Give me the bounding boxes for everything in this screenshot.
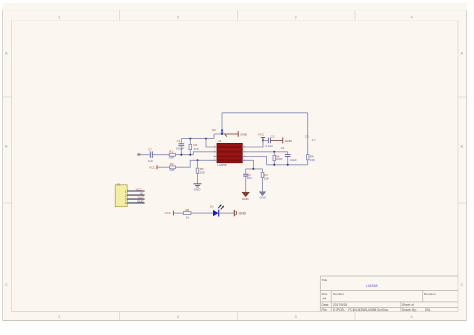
svg-text:C7: C7 xyxy=(148,148,152,152)
junction dot rail pin1 xyxy=(205,138,207,140)
port IN xyxy=(137,153,140,156)
resistor R3 xyxy=(189,139,191,145)
svg-text:A: A xyxy=(461,51,464,56)
svg-text:GND: GND xyxy=(194,188,202,192)
wire input xyxy=(141,154,150,156)
ground GND power port near D2 xyxy=(224,133,238,135)
svg-text:GND: GND xyxy=(285,139,293,143)
capacitor C4 xyxy=(287,152,289,154)
op-amp U1 LM358 body xyxy=(217,143,242,162)
svg-text:GND: GND xyxy=(137,199,143,203)
svg-text:10K: 10K xyxy=(169,156,174,160)
junction dot rail R3 xyxy=(189,138,191,140)
wire VCC to R8 xyxy=(173,212,183,214)
svg-text:47K: 47K xyxy=(193,147,198,151)
svg-text:C4: C4 xyxy=(281,146,285,150)
svg-text:2: 2 xyxy=(177,14,179,19)
resistor R8 xyxy=(184,212,191,215)
wire LED to GND xyxy=(219,212,234,214)
svg-text:Date:: Date: xyxy=(322,303,330,307)
resistor R9 xyxy=(307,155,310,160)
diode D2 xyxy=(221,130,224,133)
junction dot xyxy=(221,133,223,135)
svg-text:GND: GND xyxy=(260,196,266,200)
svg-text:10K: 10K xyxy=(264,177,269,181)
svg-text:LM358: LM358 xyxy=(366,284,378,288)
svg-text:C5: C5 xyxy=(271,134,275,138)
svg-text:E:\PCB\: E:\PCB\ xyxy=(333,308,344,312)
svg-text:VCC: VCC xyxy=(165,211,172,215)
capacitor C2 xyxy=(245,169,247,174)
pin 6 right wire xyxy=(242,151,287,153)
svg-text:104: 104 xyxy=(247,176,252,180)
wire feedback top xyxy=(222,112,308,114)
svg-text:3: 3 xyxy=(295,14,297,19)
ground GND below C2 xyxy=(242,192,250,197)
svg-text:GND: GND xyxy=(240,132,248,136)
svg-text:A4: A4 xyxy=(323,297,327,301)
ground GND power port LED xyxy=(233,210,235,216)
svg-text:U1: U1 xyxy=(218,139,222,143)
wire input 3 xyxy=(175,152,217,155)
wire feedback left vertical xyxy=(221,113,223,134)
svg-text:C: C xyxy=(5,282,8,287)
wire input 2 xyxy=(152,154,169,156)
svg-text:1: 1 xyxy=(58,314,60,319)
svg-text:SSL: SSL xyxy=(425,308,431,312)
capacitor C7 xyxy=(149,151,151,158)
svg-text:C: C xyxy=(461,282,464,287)
pin 1 left xyxy=(206,139,217,147)
resistor R6 xyxy=(273,152,275,156)
svg-text:R1: R1 xyxy=(169,149,173,153)
junction dot C1 xyxy=(180,154,182,156)
wire VCC to R2 xyxy=(157,166,170,168)
svg-text:GND: GND xyxy=(242,197,250,201)
wire node junction horizontal xyxy=(214,133,224,135)
svg-text:D1: D1 xyxy=(210,204,214,208)
pin numbers xyxy=(214,145,246,160)
wire R9 to bottom xyxy=(307,160,309,165)
svg-text:R2: R2 xyxy=(170,162,174,166)
resistor R5 xyxy=(197,160,199,168)
ground GND below R5 xyxy=(194,183,202,185)
junction dot below IC xyxy=(252,168,254,170)
svg-text:1: 1 xyxy=(58,14,60,19)
wire rail xyxy=(181,138,214,140)
svg-text:Number: Number xyxy=(333,292,344,296)
pin wire P1-3 xyxy=(127,198,144,200)
svg-text:R8: R8 xyxy=(185,208,189,212)
capacitor C1 xyxy=(180,139,182,144)
svg-text:100K: 100K xyxy=(276,157,283,161)
svg-text:2: 2 xyxy=(177,314,179,319)
ground GND power port right of C5 xyxy=(270,139,282,141)
svg-text:10K: 10K xyxy=(169,168,174,172)
svg-text:A: A xyxy=(5,51,8,56)
svg-text:P1: P1 xyxy=(117,183,121,187)
junction dot C4 bottom xyxy=(287,164,289,166)
svg-text:GND: GND xyxy=(239,211,247,215)
svg-text:LM358: LM358 xyxy=(217,163,227,167)
title block xyxy=(320,275,458,277)
svg-text:1uF: 1uF xyxy=(148,159,153,163)
capacitor C5 xyxy=(263,139,268,141)
junction dot R3 xyxy=(189,154,191,156)
svg-text:B: B xyxy=(5,144,8,149)
svg-text:100pF: 100pF xyxy=(176,147,185,151)
LED D1 xyxy=(213,210,219,216)
junction dot R6 xyxy=(273,151,275,153)
svg-text:C1: C1 xyxy=(177,139,181,143)
resistor R4 xyxy=(262,169,264,173)
svg-text:D2: D2 xyxy=(212,128,216,132)
svg-text:2017/9/26: 2017/9/26 xyxy=(333,303,347,307)
svg-text:10K: 10K xyxy=(200,171,205,175)
svg-text:VCC: VCC xyxy=(149,166,156,170)
pin 8 right wire xyxy=(242,160,253,169)
wire riser rail xyxy=(213,134,215,139)
svg-text:Revision: Revision xyxy=(424,292,436,296)
wire feedback right vertical xyxy=(307,113,309,155)
svg-text:C3: C3 xyxy=(305,135,309,139)
svg-text:4.7: 4.7 xyxy=(312,138,317,142)
resistor R1 xyxy=(169,153,175,156)
svg-text:File:: File: xyxy=(322,308,328,312)
junction dot VCC xyxy=(262,139,264,141)
pin 7 right wire xyxy=(242,157,266,165)
junction dot R6 bottom xyxy=(273,164,275,166)
svg-text:PCB\LM358\LM358.SchDoc: PCB\LM358\LM358.SchDoc xyxy=(348,308,388,312)
junction dot R5 xyxy=(197,159,199,161)
pin wire P1-1 xyxy=(127,190,144,192)
connector P1 xyxy=(115,185,127,207)
svg-text:B: B xyxy=(461,144,464,149)
svg-text:Size: Size xyxy=(322,292,328,296)
wire R2 to pin4 xyxy=(176,160,218,167)
wire below IC xyxy=(246,168,263,170)
wire bottom right net xyxy=(267,164,308,166)
wire R8 to LED xyxy=(191,212,213,214)
svg-text:Drawn By:: Drawn By: xyxy=(402,308,417,312)
pin wire P1-2 xyxy=(127,194,144,196)
svg-text:Title: Title xyxy=(322,278,328,282)
svg-text:VCC: VCC xyxy=(258,133,265,137)
svg-text:10K: 10K xyxy=(310,158,315,162)
svg-text:0.1uF: 0.1uF xyxy=(265,144,273,148)
resistor R2 xyxy=(170,166,176,169)
svg-text:10uF: 10uF xyxy=(290,158,297,162)
pin wire P1-4 xyxy=(127,202,144,204)
svg-text:3: 3 xyxy=(295,314,297,319)
pin 5 right VCC xyxy=(242,140,263,147)
ground GND below R4 xyxy=(259,192,266,196)
svg-text:Sheet of: Sheet of xyxy=(402,303,414,307)
svg-text:1K: 1K xyxy=(186,216,190,220)
